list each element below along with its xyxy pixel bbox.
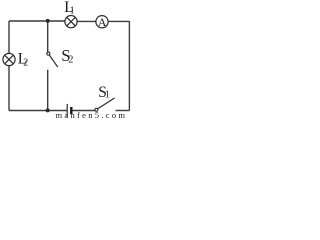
svg-text:manfen5.com: manfen5.com xyxy=(56,110,128,119)
svg-text:2: 2 xyxy=(68,54,73,65)
svg-text:2: 2 xyxy=(23,58,28,69)
svg-text:1: 1 xyxy=(105,90,110,101)
svg-text:A: A xyxy=(98,17,107,29)
svg-text:1: 1 xyxy=(70,5,75,16)
